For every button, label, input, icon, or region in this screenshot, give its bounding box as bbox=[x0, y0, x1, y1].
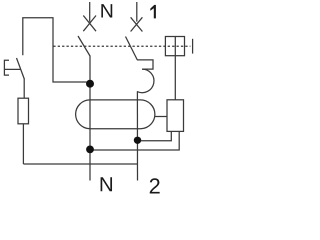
wire: relay to node C bbox=[90, 131, 179, 150]
wire: N pole down through toroid bbox=[89, 56, 91, 181]
solenoid trip coil (half circle) bbox=[137, 69, 154, 93]
wire: handle frame / test feed bbox=[23, 18, 87, 82]
label N (top) bbox=[101, 4, 112, 17]
wire: supply lead N bbox=[89, 2, 91, 22]
switch blade SW1 (N pole) bbox=[78, 36, 90, 56]
toroid current transformer bbox=[76, 100, 155, 129]
mechanical linkage (dashed) bbox=[53, 45, 190, 47]
test button actuator bbox=[4, 60, 9, 75]
linkage end tick bbox=[192, 39, 194, 54]
mechanism box bbox=[165, 37, 184, 56]
wire: resistor to bottom rail bbox=[22, 124, 24, 164]
resistor R1 (test) bbox=[18, 98, 29, 124]
label N (bottom) bbox=[101, 177, 112, 191]
node B bbox=[134, 137, 141, 144]
node C bbox=[86, 146, 94, 154]
wire: pole 1 down through toroid bbox=[136, 91, 138, 180]
node A bbox=[86, 80, 94, 88]
label 2 (bottom) bbox=[150, 178, 160, 193]
wire: relay to node B bbox=[138, 131, 172, 140]
terminal X (N in) bbox=[83, 16, 96, 32]
label 1 (top) bbox=[150, 5, 156, 19]
actuator link bbox=[4, 68, 20, 70]
wire: test blade to resistor bbox=[23, 79, 25, 99]
relay K1 bbox=[167, 100, 184, 132]
wire: supply lead 1 bbox=[136, 2, 138, 22]
wire: mechanism to relay bbox=[174, 37, 176, 100]
wire: step to solenoid bbox=[137, 60, 153, 69]
terminal X (1 in) bbox=[131, 17, 143, 31]
switch blade SW2 (pole 1) bbox=[126, 37, 138, 60]
wire: bottom rail bbox=[23, 163, 137, 165]
test switch blade bbox=[17, 58, 25, 79]
wire: toroid secondary to relay bbox=[155, 116, 167, 118]
